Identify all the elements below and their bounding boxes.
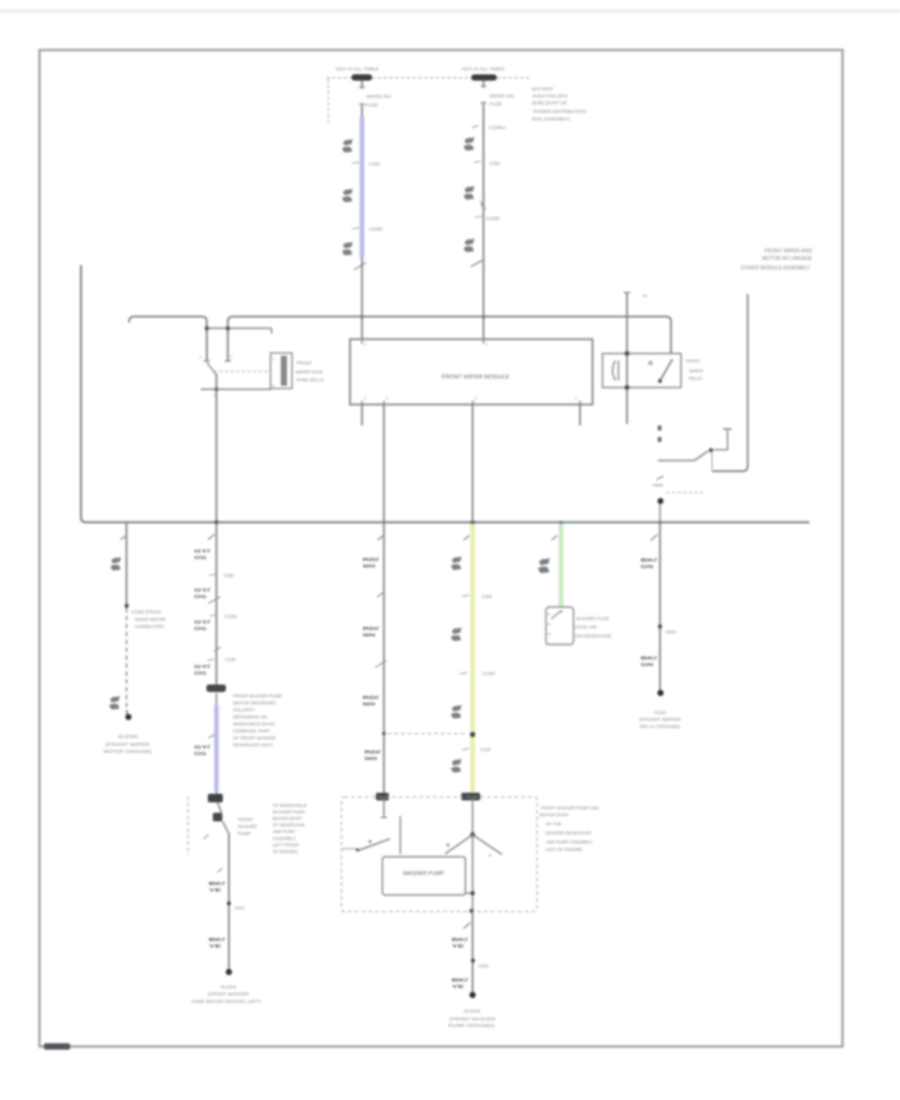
svg-text:GY/: GY/ — [194, 588, 211, 594]
ground dot G100 — [125, 714, 131, 720]
svg-text:GN: GN — [641, 564, 654, 570]
relay R1 contact left tick — [204, 360, 211, 362]
svg-text:PUMP: PUMP — [238, 831, 251, 836]
svg-text:(FRONT WASHER: (FRONT WASHER — [450, 1016, 496, 1021]
svg-text:POWER DISTRIBUTION: POWER DISTRIBUTION — [533, 109, 587, 115]
svg-text:BK/: BK/ — [641, 558, 658, 564]
svg-text:4: 4 — [273, 384, 275, 388]
park switch contact blob — [709, 448, 713, 452]
svg-text:COMMAND, PART: COMMAND, PART — [233, 728, 270, 733]
washer box label right — [539, 805, 598, 852]
junction R1 output — [214, 387, 218, 391]
wire W3 upper — [126, 522, 128, 608]
svg-text:OG: OG — [194, 671, 207, 677]
svg-text:(FRONT WIPER: (FRONT WIPER — [639, 717, 681, 722]
wire W5 code a — [363, 557, 380, 570]
splice S403 label — [666, 630, 677, 635]
wire W6 label C226 — [462, 747, 491, 752]
svg-text:(FRONT WIPER: (FRONT WIPER — [106, 742, 150, 747]
svg-text:WH: WH — [363, 633, 376, 639]
label HOT AT ALL TIMES left — [336, 67, 380, 73]
text block washer pump left — [233, 693, 282, 747]
svg-text:C2250: C2250 — [482, 671, 495, 676]
svg-text:WIPER MOTOR: WIPER MOTOR — [135, 617, 166, 622]
bus upper main — [228, 317, 671, 361]
svg-text:5: 5 — [230, 355, 232, 359]
wire W1 label C2280 — [352, 227, 383, 232]
wire W4 tick 2 — [214, 647, 220, 652]
svg-text:C2280: C2280 — [486, 216, 500, 221]
washer switch left stub — [342, 848, 360, 851]
svg-text:OF RESERVOIR: OF RESERVOIR — [273, 823, 305, 828]
svg-text:6: 6 — [365, 343, 367, 347]
svg-text:WIPER 30A: WIPER 30A — [367, 94, 393, 99]
washer switch left blade — [357, 839, 390, 851]
bus lower — [81, 265, 810, 522]
motor box label — [403, 871, 445, 877]
svg-text:FUSE: FUSE — [490, 102, 503, 107]
wire W4 lower — [228, 834, 230, 970]
svg-text:MOTOR W/ LINKAGE: MOTOR W/ LINKAGE — [762, 256, 813, 262]
text block right of W4 — [273, 803, 307, 854]
svg-text:MOTOR GROUND): MOTOR GROUND) — [104, 749, 153, 754]
junction bus lower W5 — [382, 521, 385, 524]
ground dot G101 — [226, 969, 232, 975]
level switch blade — [551, 610, 562, 619]
junction W1-bus — [360, 315, 364, 319]
battery junction box dashed outline — [326, 78, 530, 124]
relay R1 pin text 2 — [214, 394, 216, 398]
relay R2 through wire — [626, 293, 628, 425]
wire W4 code c — [194, 619, 211, 632]
wire W4 code f — [209, 881, 226, 894]
svg-text:CONNECTOR): CONNECTOR) — [135, 624, 165, 629]
wire W6 tick 1 — [464, 536, 470, 541]
washer pump assembly dashed box — [342, 797, 538, 912]
svg-text:BK/: BK/ — [452, 937, 469, 943]
svg-text:YE: YE — [452, 984, 466, 990]
svg-text:3: 3 — [364, 397, 366, 401]
supply terminal blob right — [471, 74, 497, 80]
svg-text:C226: C226 — [480, 747, 491, 752]
wire W4 jog tick — [203, 835, 208, 840]
svg-text:OF ENGINE): OF ENGINE) — [273, 849, 299, 854]
wire W4 jog — [218, 802, 229, 836]
washer blade left — [445, 835, 472, 854]
wire W3 dashed — [126, 608, 128, 712]
svg-text:FUSE: FUSE — [366, 103, 379, 108]
svg-text:RELAY GROUND): RELAY GROUND) — [640, 724, 681, 729]
svg-text:GY/: GY/ — [194, 664, 211, 670]
junction R1 feed b — [226, 326, 230, 330]
junction bus lower W8 — [658, 521, 661, 524]
svg-text:AND PUMP: AND PUMP — [273, 829, 296, 834]
splice S401 label — [235, 906, 246, 911]
svg-text:OF FRONT WASHER: OF FRONT WASHER — [233, 735, 276, 740]
wire W8 — [659, 522, 661, 690]
svg-text:OF THE: OF THE — [546, 822, 562, 827]
label HOT AT ALL TIMES right — [462, 67, 506, 73]
relay R1 pin text 85 — [273, 384, 275, 388]
connector pin blob W5 — [376, 793, 389, 801]
wire W4 code g — [209, 937, 226, 950]
svg-text:WASHER RESERVOIR: WASHER RESERVOIR — [546, 830, 591, 835]
wire W8 code b — [641, 656, 658, 669]
washer switch left contact — [369, 840, 372, 843]
svg-text:FRONT WIPER MODULE: FRONT WIPER MODULE — [442, 374, 510, 380]
svg-text:OG: OG — [194, 751, 207, 757]
text front washer pump mid — [238, 817, 257, 836]
module pin tick top left — [362, 339, 367, 346]
ground label G101 — [192, 984, 262, 1004]
park switch contact drop — [711, 453, 713, 471]
svg-text:BOX ASSEMBLY): BOX ASSEMBLY) — [532, 117, 571, 123]
connector blob W4 — [206, 685, 226, 693]
connector blob W4 b — [208, 794, 223, 803]
wire W8 code a — [641, 558, 658, 571]
junction R2 bottom — [625, 385, 630, 390]
park switch dots — [658, 426, 662, 443]
level switch tail — [545, 644, 548, 646]
washer motor link — [466, 892, 473, 894]
svg-text:BK/: BK/ — [209, 881, 226, 887]
wire W5 tick 3 — [375, 661, 386, 668]
wire W1 blue run/park feed — [359, 117, 364, 258]
svg-text:LEVEL SW: LEVEL SW — [575, 625, 598, 630]
svg-text:OG: OG — [194, 594, 207, 600]
wire W6 connector glyph 1 — [451, 556, 461, 570]
park switch contact step — [714, 429, 732, 450]
svg-text:WIPER: WIPER — [689, 369, 703, 374]
wire W4 code a — [194, 549, 211, 562]
svg-text:MOTOR (REVERSES: MOTOR (REVERSES — [233, 700, 276, 705]
svg-text:FRONT WASHER PUMP AND: FRONT WASHER PUMP AND — [541, 805, 599, 810]
wire W2 tick C250 — [474, 161, 501, 166]
svg-text:C250: C250 — [489, 161, 500, 166]
splice S401 — [227, 901, 231, 905]
wire W1 end chevron — [354, 263, 366, 271]
wire W2 tick C2280A — [472, 125, 507, 131]
svg-text:BK/: BK/ — [209, 937, 226, 943]
wire W4 tick 1 — [208, 535, 215, 540]
svg-text:C2280A: C2280A — [489, 125, 507, 131]
wire W5 tick 2 — [377, 592, 384, 598]
module pin tick top right — [484, 339, 489, 346]
svg-text:C226: C226 — [225, 657, 236, 662]
wire W1 connector C2 glyph — [342, 189, 352, 203]
svg-text:WH: WH — [363, 702, 376, 708]
relay R1 pin text 5 — [230, 355, 232, 359]
svg-text:C2280: C2280 — [369, 227, 383, 232]
svg-text:(FRONT WASHER: (FRONT WASHER — [208, 992, 249, 997]
assembly bracket — [712, 294, 747, 471]
park switch label PARK — [653, 483, 664, 488]
svg-text:HOT AT ALL TIMES: HOT AT ALL TIMES — [336, 67, 380, 73]
svg-text:COVER MODULE ASSEMBLY: COVER MODULE ASSEMBLY — [741, 266, 811, 272]
svg-text:WASHER PUMP: WASHER PUMP — [273, 809, 305, 814]
svg-text:C2250: C2250 — [224, 614, 237, 619]
svg-text:FRONT: FRONT — [297, 361, 313, 366]
wire W4 tick 3 — [218, 868, 223, 873]
svg-text:(ON RESERVOIR): (ON RESERVOIR) — [575, 633, 612, 638]
wire W6 connector glyph 4 — [451, 759, 461, 773]
svg-text:WASHER PUMP: WASHER PUMP — [403, 871, 445, 877]
module pin tick bottom a — [362, 397, 366, 405]
wire W2 label C2280 — [475, 216, 500, 221]
svg-text:C250: C250 — [482, 594, 493, 599]
wire W4 code d — [194, 664, 211, 677]
svg-text:FRONT: FRONT — [686, 358, 701, 363]
svg-text:WH: WH — [365, 756, 378, 762]
svg-text:POLARITY: POLARITY — [233, 707, 255, 712]
svg-text:C2280 (FRONT: C2280 (FRONT — [132, 610, 162, 615]
wire W2 connector C2 glyph — [464, 186, 475, 200]
junction bus lower W4 — [214, 520, 218, 524]
relay R2 blade — [658, 359, 673, 383]
splice W3 — [125, 604, 129, 608]
svg-text:WIPER 20A: WIPER 20A — [490, 94, 516, 99]
svg-text:TO WINDSHIELD: TO WINDSHIELD — [273, 803, 307, 808]
module pin tick bottom b — [384, 397, 388, 405]
dashed conduit line — [187, 797, 189, 856]
wire W4 code b — [194, 588, 221, 604]
svg-text:S402: S402 — [478, 963, 489, 968]
junction R2 top — [625, 351, 630, 356]
scan artifact band — [0, 9, 900, 13]
relay R1 pin text 3 — [199, 356, 201, 360]
svg-text:C250: C250 — [224, 573, 235, 578]
level switch label — [575, 616, 612, 639]
svg-text:2: 2 — [214, 394, 216, 398]
svg-text:RD/: RD/ — [363, 626, 380, 632]
wire W9 tick — [464, 923, 471, 929]
splice S402 — [471, 959, 475, 963]
wire W5 code d — [365, 750, 382, 763]
svg-text:JUNCTION BOX: JUNCTION BOX — [532, 94, 569, 100]
svg-text:WASHER: WASHER — [238, 824, 257, 829]
wire W5 code b — [363, 626, 380, 639]
wire W5 — [383, 405, 385, 798]
relay R1 pin text 86 — [273, 357, 275, 361]
ground label G102 — [448, 1009, 495, 1029]
svg-text:WIPER RUN/: WIPER RUN/ — [296, 370, 324, 375]
relay R1 coil box — [271, 353, 293, 389]
svg-text:86: 86 — [643, 294, 647, 298]
svg-text:A: A — [489, 854, 492, 858]
svg-text:G100: G100 — [118, 734, 139, 740]
wire W9 code b — [452, 978, 469, 991]
svg-text:PUMP MOTOR GROUND, LEFT): PUMP MOTOR GROUND, LEFT) — [192, 999, 262, 1004]
svg-text:4: 4 — [386, 397, 388, 401]
wire W5 tick 1 — [378, 536, 384, 541]
wire relay R1 output — [215, 374, 217, 523]
fuse F1 label — [366, 94, 393, 108]
washer box pin stub W5 — [381, 797, 388, 818]
junction washer box exit — [469, 909, 473, 913]
wire W3 tick — [121, 536, 127, 540]
svg-text:RD/: RD/ — [365, 750, 382, 756]
connector blob W4 c — [213, 813, 223, 822]
wire W6 label C2250 — [460, 671, 495, 676]
wire W2 run feed — [483, 120, 485, 339]
wire W4 label C226 — [207, 657, 236, 662]
wire W6 yellow — [470, 524, 476, 796]
washer blade contact a — [447, 844, 450, 847]
washer blade tiny text — [489, 854, 492, 858]
module stub pin d — [579, 405, 581, 426]
wire W9 — [472, 912, 474, 993]
module box front wiper motor — [350, 339, 593, 404]
park switch blade — [658, 451, 708, 461]
wire W2 connector C3 glyph — [464, 238, 475, 252]
module pin tick bottom c — [473, 397, 477, 405]
wire W1 connector C3 glyph — [342, 242, 352, 256]
wire W6 label C250 — [462, 594, 493, 599]
wire W6 upper gray — [472, 405, 474, 527]
svg-text:(BJB) (PART OF: (BJB) (PART OF — [532, 101, 567, 107]
svg-text:ASSEMBLY,: ASSEMBLY, — [273, 836, 297, 841]
junction W2-bus — [482, 315, 486, 319]
wire W4 blue segment — [215, 693, 217, 795]
wire W6 inside box upper — [472, 797, 474, 835]
relay R1 label — [296, 361, 324, 383]
relay R2 top tick — [624, 293, 647, 299]
svg-text:BK/: BK/ — [452, 978, 469, 984]
ground label G100 — [104, 734, 153, 754]
wire W8 tick — [651, 535, 658, 541]
splice S402 label — [478, 963, 489, 968]
svg-text:RELAY: RELAY — [689, 376, 703, 381]
svg-text:YE: YE — [209, 944, 223, 950]
svg-text:S403: S403 — [666, 630, 677, 635]
svg-text:1: 1 — [273, 357, 275, 361]
relay R1 bottom line — [201, 388, 272, 390]
svg-text:GN: GN — [641, 662, 654, 668]
junction W6 crossover — [470, 732, 475, 737]
svg-text:RD/: RD/ — [363, 557, 380, 563]
svg-text:WINDSHIELD WASH: WINDSHIELD WASH — [233, 721, 275, 726]
relay R1 coil winding — [281, 356, 287, 386]
fuse F2 label — [490, 94, 516, 107]
wire W6 inside box lower — [472, 835, 474, 912]
svg-text:G103: G103 — [654, 710, 666, 715]
ground dot G102 — [470, 992, 476, 998]
svg-text:G102: G102 — [464, 1009, 482, 1014]
washer pivot junction — [470, 832, 475, 837]
washer box post — [399, 816, 401, 854]
svg-text:S401: S401 — [235, 906, 246, 911]
wire W3 connector glyph — [111, 557, 121, 571]
svg-text:PARK RELAY: PARK RELAY — [297, 377, 325, 382]
relay R1 contact right tick — [225, 360, 232, 362]
svg-text:FRONT WASHER PUMP: FRONT WASHER PUMP — [233, 693, 282, 698]
motor box washer pump — [382, 857, 465, 895]
wire W7 connector glyph — [538, 558, 550, 573]
wire W4 label C2250 — [210, 614, 237, 619]
svg-text:5: 5 — [575, 397, 577, 401]
supply terminal blob left — [352, 74, 373, 80]
splice S403 — [658, 625, 662, 629]
wire W9 code a — [452, 937, 469, 950]
module stub pin a — [361, 405, 363, 426]
svg-text:FRONT: FRONT — [238, 817, 253, 822]
svg-text:GY/: GY/ — [194, 619, 211, 625]
svg-text:MOTOR (PART: MOTOR (PART — [273, 816, 303, 821]
svg-text:C250: C250 — [369, 161, 380, 166]
svg-text:PARK: PARK — [653, 483, 664, 488]
wire W6 connector glyph 3 — [451, 705, 461, 719]
svg-text:1: 1 — [486, 343, 488, 347]
module box label — [442, 374, 510, 380]
wire W4 blue tick — [209, 735, 215, 739]
svg-text:3: 3 — [199, 356, 201, 360]
junction washer motor — [470, 891, 474, 895]
svg-text:2: 2 — [475, 397, 477, 401]
fuse F1 — [359, 81, 364, 119]
svg-text:LEFT OF ENGINE): LEFT OF ENGINE) — [546, 847, 583, 852]
svg-text:MOTOR (PART: MOTOR (PART — [539, 813, 569, 818]
svg-text:RD/: RD/ — [363, 695, 380, 701]
wire W4 code e — [194, 745, 211, 758]
wire W5 code c — [363, 695, 380, 708]
wire W3 lower — [126, 710, 128, 714]
wire W7 green — [559, 524, 564, 607]
junction bus lower W7 — [559, 521, 562, 524]
ground label G103 — [639, 710, 681, 729]
svg-text:BATTERY: BATTERY — [532, 87, 554, 93]
splice W3 label — [132, 610, 166, 630]
svg-text:RESERVOIR ASSY): RESERVOIR ASSY) — [233, 742, 273, 747]
svg-text:OG: OG — [194, 626, 207, 632]
crossover dashed W5-W6 — [388, 733, 466, 735]
wire W4 label C250 — [209, 573, 235, 578]
bus upper left branch — [129, 317, 207, 361]
wire W6 connector glyph 2 — [451, 627, 461, 641]
svg-text:LEFT FRONT: LEFT FRONT — [273, 842, 300, 847]
park switch dashed ref — [667, 492, 707, 494]
connector pin blob W6 — [461, 793, 480, 801]
junction park switch — [658, 498, 664, 504]
relay R1 coil dashed link — [214, 371, 270, 373]
svg-text:FRONT WIPER AND: FRONT WIPER AND — [765, 249, 813, 255]
wire W2 connector C1 glyph — [464, 137, 475, 151]
svg-text:PUMP GROUND): PUMP GROUND) — [448, 1023, 495, 1028]
wire W7 tick — [552, 536, 558, 541]
assembly label — [741, 249, 813, 272]
relay R2 box — [603, 354, 682, 388]
junction W5 crossover — [382, 732, 386, 736]
svg-text:YE: YE — [209, 888, 223, 894]
module pin tick bottom d — [575, 397, 580, 405]
wire W1 lower segment — [361, 258, 363, 339]
wire W2 splice squiggle — [480, 201, 486, 210]
wire W3 connector glyph 2 — [109, 696, 119, 710]
wire W1 connector C1 glyph — [342, 139, 352, 153]
wire W1 tick C250 — [352, 161, 380, 166]
svg-text:GY/: GY/ — [194, 745, 211, 751]
relay R2 contact circle — [649, 361, 652, 364]
svg-text:HOT AT ALL TIMES: HOT AT ALL TIMES — [462, 67, 506, 73]
washer level switch box — [546, 607, 574, 645]
park switch lower tick — [657, 476, 664, 480]
svg-text:G101: G101 — [221, 984, 238, 989]
relay R2 label — [686, 358, 703, 381]
svg-text:OG: OG — [194, 555, 207, 561]
svg-text:WASHER FLUID: WASHER FLUID — [576, 616, 609, 621]
page number mark — [44, 1043, 70, 1049]
level switch pins — [548, 614, 551, 634]
svg-text:YE: YE — [452, 944, 466, 950]
